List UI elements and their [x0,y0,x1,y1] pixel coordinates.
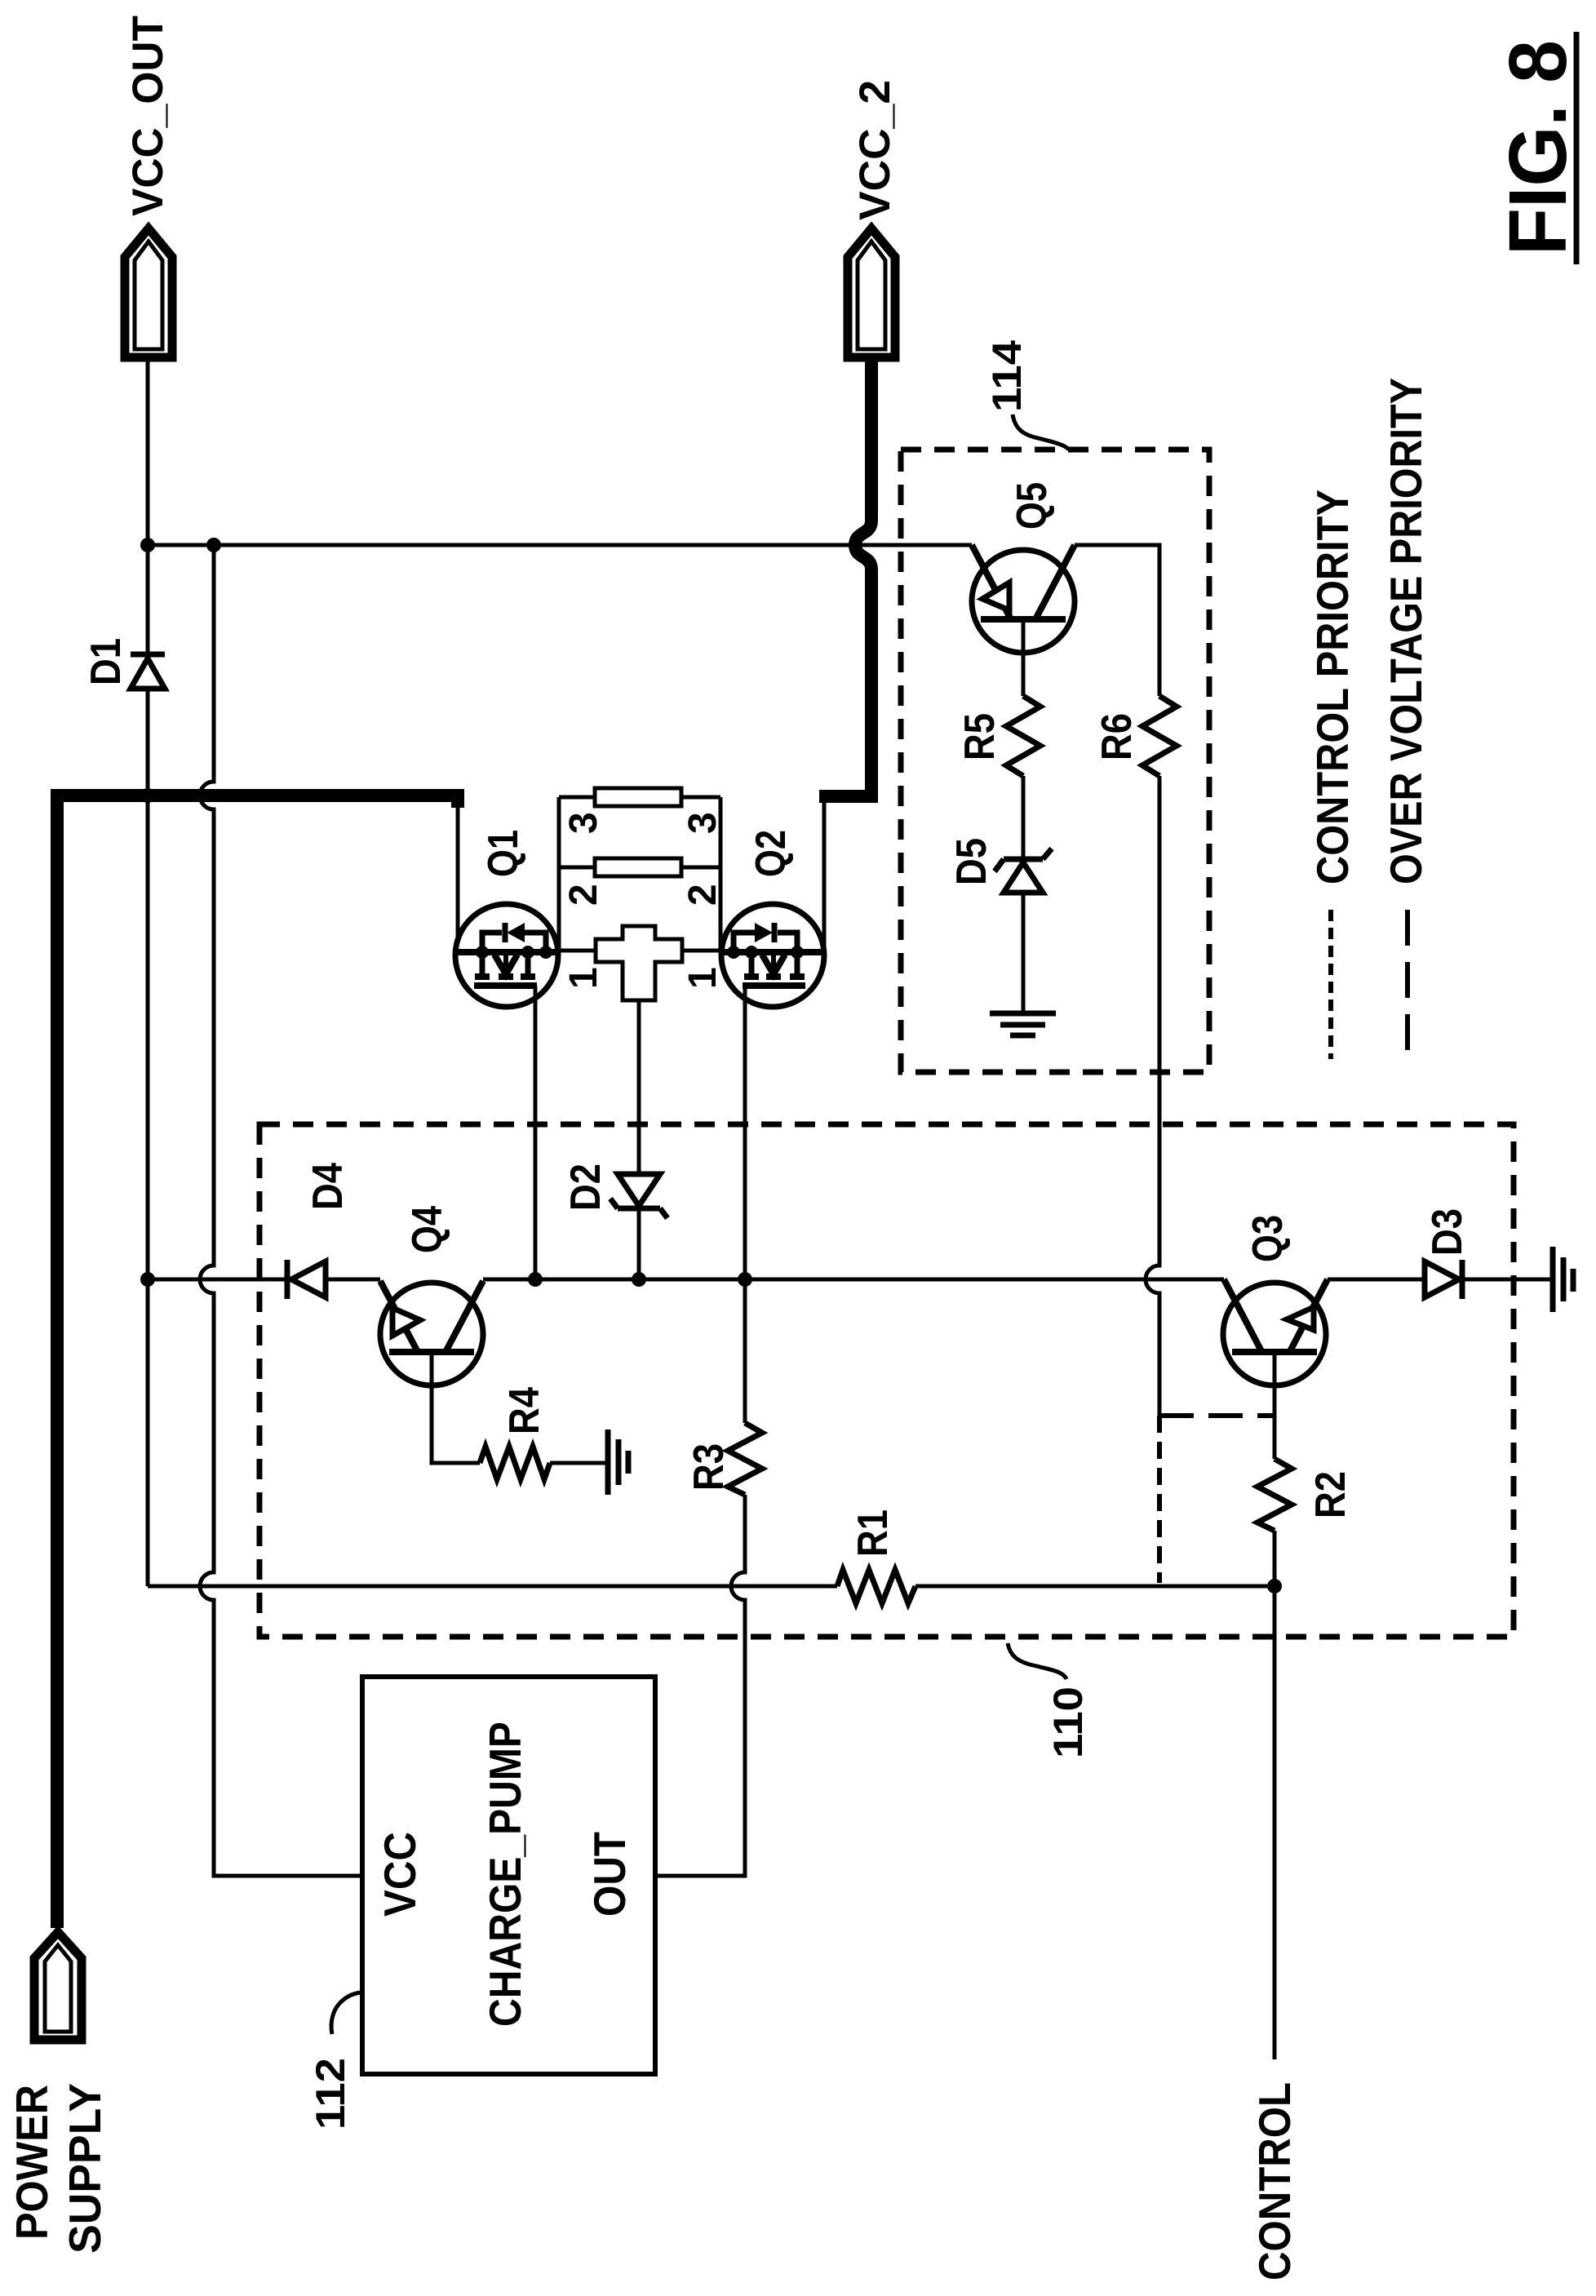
svg-text:R1: R1 [849,1509,897,1557]
svg-text:110: 110 [1045,1687,1091,1758]
diode D4 [287,1260,326,1299]
node junction dot (1562,1944) [1267,1579,1282,1593]
zener diode D5 [995,849,1052,893]
svg-text:D5: D5 [948,838,995,885]
wire R3 bottom to charge pump OUT with hop [655,1495,745,1876]
transistor Q1 (p-MOSFET) [455,904,558,1007]
svg-text:D2: D2 [562,1164,610,1211]
svg-text:Q5: Q5 [1009,482,1056,530]
node junction dot (181,975) [140,788,155,803]
node junction dot (262,668) [206,538,221,552]
wire T stem down to D2 [637,1000,641,1174]
svg-text:3: 3 [681,812,725,834]
svg-text:D1: D1 [82,638,130,685]
wire Q3 base lead [1273,1352,1277,1459]
svg-text:Q1: Q1 [480,830,527,877]
svg-text:D4: D4 [304,1163,352,1210]
wire VCC_OUT stem [146,361,150,545]
svg-text:112: 112 [308,2058,353,2130]
svg-text:VCC: VCC [375,1832,425,1917]
svg-text:OVER VOLTAGE PRIORITY: OVER VOLTAGE PRIORITY [1381,378,1431,884]
wire long VCC branch x=262 with hops to charge pump VCC [200,545,362,1876]
node junction dot (783,1568) [632,1272,646,1287]
transistor Q5 (PNP) [972,545,1075,653]
wire pin1 right [682,949,721,953]
diode D3 [1425,1260,1462,1299]
resistor R6 [1142,696,1177,776]
wire R2 bottom to junction [1273,1531,1277,1586]
node VCC_2 pointer [848,228,895,357]
wire R3 top lead [743,1279,747,1423]
legend control priority dotted line [1328,910,1333,1059]
wire Q1 gate lead [534,986,538,1279]
diode D1 [131,654,165,689]
svg-text:Q3: Q3 [1244,1215,1292,1262]
wire Q5 base lead [1022,619,1026,696]
transistor Q3 (NPN) [1223,1279,1328,1385]
svg-text:R2: R2 [1307,1471,1354,1518]
leader 112 [331,1992,361,2034]
ground (below D5) [990,1013,1056,1035]
svg-text:2: 2 [562,884,605,906]
leader 110 [1008,1643,1066,1679]
wire gate control rail y=1568 [148,1278,1553,1282]
svg-text:Q4: Q4 [404,1206,451,1253]
wire R6 down with hop over gate rail [1146,776,1159,1416]
node junction dot (913,1568) [738,1272,752,1287]
charge pump box U112 [362,1677,655,2074]
svg-text:R4: R4 [501,1387,548,1434]
svg-text:R3: R3 [685,1443,733,1491]
wire Q1 source drop [456,806,460,941]
net label POWER SUPPLY [7,2083,110,2254]
wire D1 branch upper [146,545,150,653]
svg-text:FIG. 8: FIG. 8 [1492,40,1584,255]
node junction dot (656,1568) [528,1272,543,1287]
wire thick VCC_2 bus with hop [819,361,871,796]
svg-text:3: 3 [562,812,605,834]
dashed box 114 [901,450,1209,1072]
connector frame between Q1 and Q2 [559,788,720,951]
wire R1 rail y=1944 [148,1585,1275,1589]
legend over voltage dashed line [1405,910,1410,1059]
svg-text:CONTROL: CONTROL [1249,2082,1300,2280]
wire control dotted drop to R1 rail [1157,1416,1162,1583]
title underline [1574,32,1580,264]
leader 114 [1013,414,1069,450]
wire pin1 left [558,949,596,953]
transistor Q4 (PNP) [380,1281,483,1385]
wire D1 branch lower [146,689,150,796]
svg-text:VCC_2: VCC_2 [851,80,899,220]
wire thick POWER SUPPLY bus [57,796,458,1928]
svg-text:OUT: OUT [584,1832,635,1917]
node junction dot (181,1568) [140,1272,155,1287]
svg-text:114: 114 [984,340,1030,412]
wire R4 to ground [550,1461,608,1465]
resistor R2 [1257,1459,1292,1531]
wire Q4 base lead to R4 [432,1352,480,1463]
resistor R3 [728,1423,762,1495]
svg-text:Q2: Q2 [747,830,795,877]
node VCC_OUT pointer [125,228,172,357]
ground (right of R4) [608,1429,628,1495]
svg-text:R6: R6 [1093,713,1141,760]
connector T plug [596,926,682,1000]
resistor R5 [1006,696,1040,776]
wire D2 to gate rail [637,1208,641,1279]
wire Q2 gate lead [743,986,747,1279]
zener diode D2 [610,1174,667,1218]
svg-text:2: 2 [681,884,725,906]
svg-text:1: 1 [562,967,605,989]
wire left feed x=181 from bus to R1 rail [146,796,150,1586]
svg-text:1: 1 [681,967,725,989]
svg-text:POWER: POWER [7,2085,57,2240]
ground (right of D3) [1553,1247,1573,1312]
transistor Q2 (p-MOSFET) [721,904,824,1007]
wire Q2 drain drop [822,798,827,952]
svg-text:R5: R5 [956,713,1004,760]
wire CONTROL input [1273,1586,1277,2059]
wire D5 to ground [1022,893,1026,1012]
resistor R1 [837,1570,915,1603]
node POWER SUPPLY pointer [34,1932,82,2040]
wire Q5 collector to R6 [1075,545,1159,696]
svg-text:CHARGE_PUMP: CHARGE_PUMP [480,1722,530,2027]
wire top rail y=668 [148,543,972,547]
svg-text:CONTROL PRIORITY: CONTROL PRIORITY [1307,490,1358,884]
wire R5 to D5 [1022,776,1026,859]
pin labels 3 3 [562,812,725,989]
svg-text:VCC_OUT: VCC_OUT [124,16,172,216]
resistor R4 [480,1447,550,1479]
svg-text:D3: D3 [1424,1208,1471,1256]
svg-text:SUPPLY: SUPPLY [60,2083,110,2254]
dashed box 110 [259,1124,1514,1637]
wire over-voltage dashed branch to Q3 base [1159,1413,1273,1418]
node junction dot (181,668) [140,538,155,552]
